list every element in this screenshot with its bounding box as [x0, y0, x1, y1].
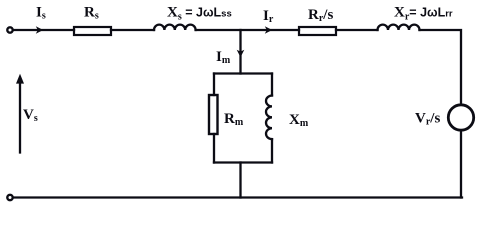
- source Vr/s: [448, 105, 473, 130]
- inductor Xs: [154, 25, 196, 30]
- wire Rr/s to Xr: [336, 29, 378, 31]
- parallel box right wire upper: [271, 74, 273, 96]
- parallel box left wire lower: [213, 134, 215, 163]
- terminal bottom-left: [7, 195, 12, 200]
- inductor Xm: [266, 96, 272, 140]
- resistor Rm: [209, 95, 218, 134]
- voltage arrow Vs: [16, 74, 24, 153]
- current arrow Is: [36, 26, 43, 34]
- wire box to bottom: [239, 163, 241, 198]
- wire source to bottom: [460, 132, 462, 198]
- wire Xs to node: [196, 29, 299, 31]
- resistor Rr/s: [299, 27, 336, 35]
- current arrow Ir: [265, 26, 272, 34]
- parallel box right wire lower: [271, 139, 273, 162]
- wire Im branch: [239, 30, 241, 74]
- current arrow Im: [237, 50, 245, 57]
- wire Xr to right corner: [420, 30, 462, 105]
- inductor Xr: [378, 25, 420, 30]
- wire bottom: [14, 196, 463, 198]
- parallel box left wire upper: [213, 74, 215, 96]
- parallel box top wire: [214, 72, 272, 74]
- wire Rs to Xs: [111, 29, 154, 31]
- terminal top-left: [7, 27, 12, 32]
- parallel box bottom wire: [214, 161, 272, 163]
- resistor Rs: [74, 27, 111, 35]
- wire top-left segment: [14, 29, 75, 31]
